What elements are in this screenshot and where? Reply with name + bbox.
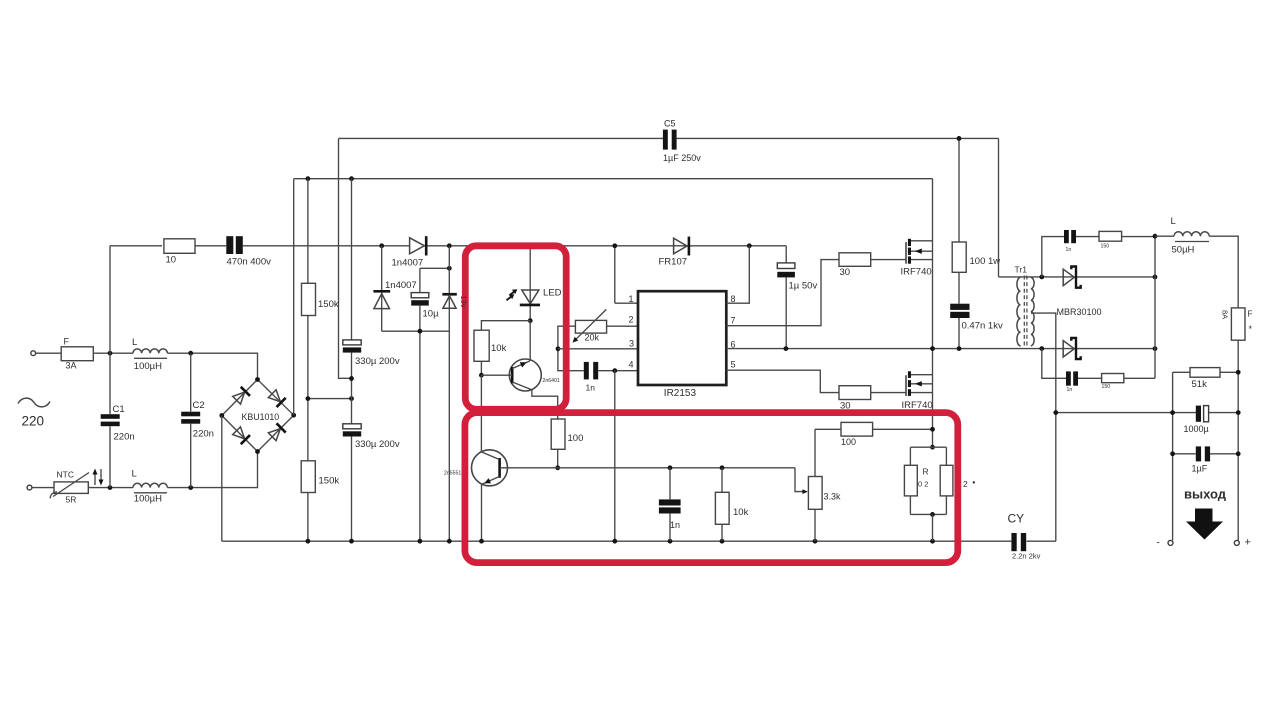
resistor 100 (vertical) [551,419,565,449]
wire: bottom AC to NTC [32,487,54,489]
wire: Q1 collector to Q2 [480,375,482,452]
wire: pin 6 Vs line [726,348,1155,350]
highlight box 1 [465,246,566,409]
svg-text:50µH: 50µH [1172,245,1195,256]
svg-text:10: 10 [166,255,177,266]
svg-text:IRF740: IRF740 [901,267,932,278]
svg-text:150: 150 [1101,244,1110,250]
node: bridge top vertex [255,377,260,382]
wire: link between filter caps [308,398,352,400]
inductor L 50µH [1155,235,1174,237]
node: Q2 base resistor junctions [668,465,673,470]
svg-text:10µ: 10µ [423,309,440,320]
capacitor CY 2.2n 2kv [1011,533,1016,551]
snubber upper 1n 150 [1042,237,1064,277]
svg-text:-: - [1157,538,1160,549]
svg-text:FR107: FR107 [659,257,688,268]
svg-text:KBU1010: KBU1010 [242,412,280,422]
svg-text:R: R [923,467,929,477]
svg-text:3.3k: 3.3k [824,492,842,502]
resistor 150k upper [307,179,309,284]
node: rail junctions [306,539,311,544]
capacitor C1 220n [109,246,111,414]
node: diode out upper [1153,275,1158,280]
transistor Q2 2n5551 [472,450,508,486]
svg-text:8A: 8A [1221,310,1230,319]
svg-text:*: * [1249,324,1253,334]
svg-text:100: 100 [568,433,584,444]
input terminal top (L) [31,351,36,356]
svg-text:1n: 1n [670,520,680,530]
svg-text:100µH: 100µH [134,494,162,505]
svg-text:2n6401: 2n6401 [543,378,560,384]
fuse F 8A [1231,308,1245,340]
svg-text:2.2n 2kv: 2.2n 2kv [1012,552,1041,561]
svg-text:20k: 20k [585,333,600,343]
svg-text:10k: 10k [733,507,749,518]
node: Q1 base junction [479,373,484,378]
highlight box 2 [465,413,958,563]
zener 13v [448,246,450,541]
snubber lower 1n 150 [1042,349,1066,379]
resistor 10k (limiter) [474,330,489,361]
svg-text:220n: 220n [193,428,214,439]
wire: doubler bottom [382,330,450,332]
svg-text:100: 100 [841,437,856,447]
svg-text:L: L [1171,216,1176,227]
svg-text:1µF 250v: 1µF 250v [663,153,701,163]
transistor Q3 IRF740 upper [901,239,933,278]
wire: LED node to 10k [481,321,530,331]
AC source symbol ~ [18,398,50,407]
svg-text:C1: C1 [113,404,125,415]
wire: rectifier output bus [1154,236,1156,378]
capacitor 330µ 200v lower [343,424,361,429]
inductor L1 100µH [133,349,167,353]
capacitor 470n 400v [226,236,233,254]
resistor 51k [1173,371,1190,373]
node: zener top [447,243,452,248]
svg-text:выход: выход [1184,487,1227,502]
capacitor 1µ 50v [785,246,787,263]
wire: pin1 Vcc feed [614,246,616,303]
svg-text:2n5551: 2n5551 [444,471,461,477]
wire: pin 3 [558,348,638,350]
svg-text:1000µ: 1000µ [1184,424,1209,434]
wire: center tap [1031,313,1056,541]
resistor 100 (horizontal) [815,428,841,430]
svg-text:C5: C5 [664,119,676,129]
node: 330u top [349,176,354,181]
inductor L2 100µH [133,483,167,487]
wire: top rail to transformer primary [998,138,1000,277]
node: 150k top [306,176,311,181]
wire: L1 to bridge top corner [167,353,257,379]
svg-text:L: L [132,468,137,479]
svg-text:0 2: 0 2 [918,480,928,489]
node: LED cathode junction [528,318,533,323]
node: bridge left vertex [219,413,224,418]
diode D6 MBR30100 lower [1063,341,1074,357]
svg-text:150: 150 [1102,384,1111,390]
wire: pin 5 to gate resistor [726,370,839,392]
svg-text:51k: 51k [1192,379,1208,390]
node: midpoint at Vs [930,346,935,351]
fuse F 3A [61,347,93,361]
node: Q2 base node [555,465,560,470]
capacitor 1n (Ct) [584,362,589,380]
svg-text:CY: CY [1008,512,1025,526]
thermistor NTC 5R [54,482,88,494]
capacitor 10µ [420,267,449,269]
svg-text:1µ 50v: 1µ 50v [789,281,818,292]
svg-text:330µ 200v: 330µ 200v [355,439,400,450]
diode 1n4007 horizontal [410,238,425,254]
node: bridge right vertex [291,413,296,418]
resistor R 0.2 pair [930,445,935,450]
capacitor 0.47n 1kv [958,272,960,303]
node: doubler tap [379,243,384,248]
svg-text:3: 3 [629,339,634,349]
node: pin4 junction [612,368,617,373]
LED emission arrows [510,291,515,295]
svg-text:30: 30 [840,267,851,278]
wire: fuse to C1 node to L1 [93,352,133,354]
wire: snubber feed top line [339,137,664,139]
wire: +DC bus (310V rail) [294,178,933,180]
wire: top AC line to fuse [36,352,62,354]
capacitor C5 1µF 250v [663,130,668,150]
capacitor 1000µ [1196,406,1201,422]
svg-text:1n: 1n [586,382,596,392]
wire: 1n4007 to zener node [428,245,787,247]
svg-text:8: 8 [731,294,736,304]
svg-text:220n: 220n [114,432,135,443]
svg-text:100 1w: 100 1w [970,256,1001,267]
node: diode out lower [1153,346,1158,351]
svg-text:3A: 3A [66,361,77,371]
node: pin8 bootstrap junction [747,243,752,248]
transformer Tr1 [1015,265,1035,348]
resistor 10 [164,239,195,254]
svg-text:MBR30100: MBR30100 [1057,307,1102,317]
svg-text:NTC: NTC [57,469,74,479]
svg-text:F: F [1248,310,1253,319]
svg-text:5R: 5R [66,495,77,505]
svg-text:1n: 1n [1067,387,1073,393]
node: C1 bottom [108,485,113,490]
capacitor 1µF [1173,453,1196,455]
node: secondary top / snubber [1039,275,1044,280]
svg-text:150k: 150k [318,299,339,310]
wire: Q2 base line [500,467,795,469]
wire: half-bridge vertical [932,179,934,448]
node: C2 top [188,351,193,356]
svg-text:Tr1: Tr1 [1015,265,1028,275]
output terminal plus [1234,540,1239,545]
svg-text:+: + [1245,537,1251,549]
bridge rectifier KBU1010 [222,380,294,452]
capacitor C2 220n [190,353,192,411]
wire: L2 to bridge bottom corner [167,452,257,488]
svg-text:5: 5 [731,360,736,370]
svg-text:1: 1 [629,294,634,304]
wire: pin4 node down to rail [614,371,616,542]
svg-text:LED: LED [543,288,562,299]
svg-text:10k: 10k [491,343,507,354]
capacitor 1n (soft start) [669,468,671,500]
node: Q4 source junction [930,427,935,432]
resistor 30 lower [839,386,871,400]
wire: Q1 emitter down to 100 [532,390,558,419]
svg-text:0.47n 1kv: 0.47n 1kv [962,321,1003,332]
svg-text:F: F [64,337,70,347]
wire: pin 7 to gate resistor [726,260,839,326]
svg-text:2: 2 [963,479,968,489]
resistor 10k (lower) [721,468,723,493]
svg-text:2: 2 [629,315,634,325]
wire: bridge minus down to ground rail [221,416,223,542]
resistor 30 upper [839,253,871,266]
diode 1n4007 vertical [381,246,383,331]
svg-text:1µF: 1µF [1192,464,1208,474]
node: secondary bottom / snubber [1039,346,1044,351]
svg-text:IR2153: IR2153 [664,388,697,399]
wire: output common line [1056,412,1196,414]
wire: ground rail [222,540,1012,542]
wire: NTC to C1 bottom to L2 [88,487,133,489]
wire: minus rail [1172,372,1174,540]
resistor 100 1w [958,138,960,242]
node: L input [1153,234,1158,239]
node: pin3 junction [556,346,561,351]
svg-text:13v: 13v [459,296,468,308]
svg-text:470n 400v: 470n 400v [227,257,272,268]
capacitor 330µ 200v upper [351,179,353,340]
IC U1 IR2153 [638,291,726,385]
svg-text:1n4007: 1n4007 [385,280,417,291]
output terminal minus [1168,540,1173,545]
diode FR107 [674,238,687,254]
svg-text:100µH: 100µH [134,361,162,372]
pot 3.3k [795,468,803,492]
node: C2 bottom [188,485,193,490]
svg-text:220: 220 [22,414,45,429]
wire: pin 8 [726,246,749,303]
svg-text:7: 7 [731,316,736,326]
LED [522,290,539,304]
diode D5 MBR30100 upper [1063,269,1074,285]
svg-text:1n: 1n [1066,247,1072,253]
wire: auxiliary supply line (Vcc) [110,245,162,247]
node: bridge bottom vertex [255,449,260,454]
transistor Q1 2n6401 [509,359,541,391]
current direction arrows [94,473,96,485]
output arrow [1186,509,1223,540]
wire: 470n to 1n4007 [243,245,410,247]
transistor Q4 IRF740 lower [902,371,933,411]
svg-text:C2: C2 [193,400,205,411]
svg-text:1n4007: 1n4007 [392,258,424,269]
svg-text:4: 4 [629,360,634,370]
node: fuse/C1/L1 junction [108,351,113,356]
pot 20k [558,326,584,371]
input terminal bottom (N) [27,485,32,490]
svg-text:330µ 200v: 330µ 200v [355,356,400,367]
resistor 150k lower [301,461,315,493]
svg-text:L: L [132,337,137,348]
wire: bridge plus up to +DC bus [293,179,295,416]
svg-text:150k: 150k [319,476,340,487]
